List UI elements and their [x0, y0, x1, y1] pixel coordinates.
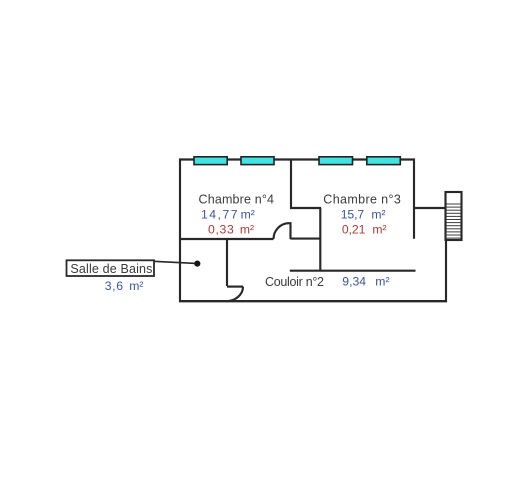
wire: right wall upper (Chambre n°3 right): [413, 159, 415, 239]
svg-text:m²: m²: [375, 275, 389, 289]
svg-text:m²: m²: [372, 223, 386, 237]
radiator / stair symbol: [446, 192, 462, 240]
svg-text:15,7: 15,7: [341, 208, 365, 222]
svg-text:Chambre n°3: Chambre n°3: [323, 192, 401, 206]
label leader line for Salle de Bains: [154, 261, 197, 263]
wire: Chambre n°4 bottom wall right part: [290, 238, 321, 240]
wire: top wall: [179, 158, 415, 160]
window W4: [367, 157, 401, 165]
svg-text:m²: m²: [240, 223, 254, 237]
wire: Chambre n°4 bottom wall left part: [179, 238, 274, 240]
wire: left wall: [179, 159, 181, 303]
door D2: bathroom door arc: [226, 287, 243, 302]
svg-text:Couloir n°2: Couloir n°2: [265, 275, 324, 289]
svg-text:Salle de Bains: Salle de Bains: [70, 262, 152, 276]
window W3: [319, 157, 353, 165]
wire: Chambre n°3 bottom-right wall segment: [413, 207, 446, 209]
svg-text:9,34: 9,34: [342, 275, 366, 289]
svg-text:0,33: 0,33: [208, 223, 234, 237]
wire: divider wall between Chambre n°4 and Chambre n°3: [290, 159, 292, 209]
door D2: bathroom door leaf: [227, 286, 243, 288]
door D1: Chambre n°4 door arc and leaf: [274, 223, 291, 239]
window W1: [194, 157, 227, 165]
wire: right wall lower: [445, 239, 447, 302]
svg-text:0,21: 0,21: [342, 223, 366, 237]
svg-text:Chambre n°4: Chambre n°4: [199, 193, 275, 207]
wire: bottom wall: [179, 300, 447, 302]
wire: corridor lower line: [290, 270, 416, 272]
label leader dot: [194, 261, 200, 267]
svg-text:m²: m²: [371, 208, 385, 222]
wire: wall segment y=208 from divider to corridor post: [290, 207, 321, 209]
svg-text:m²: m²: [241, 208, 255, 222]
label box: Salle de Bains: [67, 260, 155, 276]
svg-text:14,77: 14,77: [201, 208, 238, 222]
wire: corridor post vertical wall: [319, 208, 321, 272]
wire: bathroom partition wall: [226, 238, 228, 286]
svg-text:3,6: 3,6: [105, 279, 124, 293]
window W2: [241, 157, 274, 165]
svg-text:m²: m²: [129, 279, 143, 293]
